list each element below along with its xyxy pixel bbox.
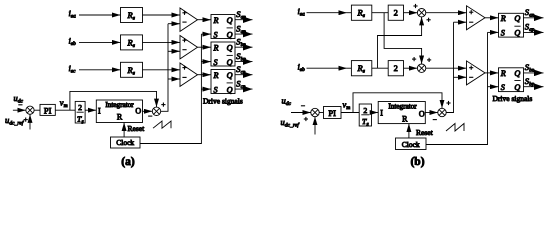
svg-text:R: R: [500, 69, 506, 78]
svg-text:Ts: Ts: [77, 115, 84, 126]
svg-text:R: R: [117, 113, 123, 122]
label 2 numerator (a): [78, 103, 82, 112]
wire pwm adder output to carrier rail (b): [446, 22, 453, 112]
svg-text:Q: Q: [227, 71, 233, 80]
svg-text:isb: isb: [69, 36, 77, 48]
svg-text:Q: Q: [514, 69, 520, 78]
label i_sa: [69, 8, 77, 20]
block clock (b): [396, 138, 427, 150]
wire carrier to comparator U2 minus input: [168, 50, 180, 52]
wire comparator output to flip-flop R channel b (b): [485, 72, 499, 74]
label minus at error junction (a): [18, 104, 22, 106]
svg-text:(a): (a): [121, 156, 135, 168]
fraction bar (b): [361, 114, 369, 116]
comparator channel a (b): [467, 6, 486, 30]
label Drive signals (a): [203, 96, 243, 105]
svg-text:Sbn: Sbn: [236, 37, 246, 49]
label Rs channel b (b): [357, 63, 365, 75]
wire PI to 2/Ts (b): [341, 112, 359, 114]
comparator U3 plus label: [182, 66, 186, 70]
wire output S_an: [235, 19, 253, 21]
svg-text:Drive signals: Drive signals: [203, 96, 243, 105]
comparator U2 plus label: [182, 38, 186, 42]
wire cross branch row2 up (b): [378, 17, 422, 68]
label minus at pwm adder (a): [148, 115, 152, 117]
label u_dc (a): [14, 93, 24, 105]
label minus at pwm adder (b): [433, 119, 437, 121]
wire i_sa to Rs block: [307, 12, 348, 14]
svg-text:Rs: Rs: [127, 65, 135, 77]
svg-text:PI: PI: [44, 105, 52, 115]
comparator U3 minus label: [182, 76, 186, 78]
label v_m (b): [343, 100, 351, 112]
wire Rs to gain-2 block channel b (b): [372, 67, 388, 69]
svg-text:Clock: Clock: [116, 138, 134, 147]
flip-flop pin Q channel a (b): [514, 14, 520, 23]
label Ts denominator (a): [77, 115, 84, 126]
svg-text:Integrator: Integrator: [105, 101, 134, 109]
label R reset pin (b): [402, 114, 408, 123]
wire error junction to PI (a): [34, 109, 40, 111]
wire gain-2 to adder channel a (b): [404, 12, 418, 14]
comparator U1 minus label: [182, 21, 186, 23]
svg-text:San: San: [525, 7, 535, 19]
wire output S_bn: [235, 46, 253, 48]
label i_sb: [298, 61, 306, 73]
svg-text:Clock: Clock: [402, 140, 420, 149]
svg-text:Scp: Scp: [236, 78, 246, 90]
flip-flop FF3 pin R: [213, 71, 219, 80]
flip-flop FF3 pin Qbar: [227, 83, 233, 94]
svg-text:R: R: [213, 16, 219, 25]
label Rs phase c: [127, 65, 135, 77]
label S_an: [236, 9, 246, 21]
label i_sc: [69, 63, 77, 75]
summing junction channel b (b): [417, 64, 425, 72]
SR flip-flop channel b (b): [499, 68, 524, 92]
wire carrier to comparator U3 minus input: [168, 78, 180, 80]
comparator channel b (b): [467, 61, 486, 85]
svg-text:Rs: Rs: [127, 10, 135, 22]
svg-text:Q: Q: [514, 83, 520, 92]
wire 2/Ts to integrator (a): [85, 109, 96, 111]
svg-text:R: R: [213, 43, 219, 52]
flip-flop FF1 pin Qbar: [227, 28, 233, 39]
svg-text:Q: Q: [514, 14, 520, 23]
label u_dc_ref (a): [5, 115, 25, 127]
block Rs phase a: [121, 8, 143, 23]
svg-text:R: R: [500, 14, 506, 23]
block Rs phase b: [121, 35, 143, 50]
block PI (b): [324, 107, 342, 119]
svg-text:S: S: [501, 83, 505, 92]
label u_dc_ref (b): [281, 117, 301, 129]
label S_bp: [236, 51, 246, 63]
label plus at error junction (b): [304, 117, 308, 121]
flip-flop FF3 pin Q: [227, 71, 233, 80]
flip-flop pin R channel a (b): [500, 14, 506, 23]
label u_dc (b): [282, 96, 292, 108]
svg-text:2: 2: [363, 106, 367, 115]
wire comparator U2 output to flip-flop R input: [198, 46, 212, 48]
svg-text:R: R: [213, 71, 219, 80]
comparator plus label channel a (b): [469, 10, 473, 14]
label I input pin (a): [98, 106, 101, 115]
block Rs phase c: [121, 62, 143, 77]
wire cross branch row1 down (b): [384, 13, 422, 64]
label Integrator (b): [388, 103, 417, 111]
wire output S_ap: [524, 31, 544, 33]
svg-text:O: O: [419, 110, 425, 119]
wire output S_ap: [235, 33, 253, 35]
label i_sa: [298, 6, 306, 18]
svg-text:isc: isc: [69, 63, 77, 75]
block integrator (b): [378, 102, 425, 124]
wire carrier to comparator U1 minus input: [168, 23, 180, 25]
svg-text:Reset: Reset: [128, 124, 146, 133]
wire carrier to comparator minus input channel b (b): [454, 76, 467, 78]
svg-text:PI: PI: [328, 108, 336, 118]
svg-text:udc_ref: udc_ref: [5, 115, 25, 127]
svg-text:I: I: [380, 109, 383, 118]
wire clock to flip-flop S channel a (b): [488, 31, 499, 33]
wire Rs to gain-2 block channel a (b): [372, 12, 388, 14]
wire i_sa to Rs block: [79, 14, 121, 16]
label O output pin (b): [419, 110, 425, 119]
comparator plus label channel b (b): [469, 66, 473, 70]
label O output pin (a): [135, 107, 141, 116]
label minus at error junction (b): [301, 105, 305, 107]
wire clock to flip-flop 2 S input: [201, 61, 211, 63]
label plus at pwm adder (a): [161, 103, 165, 107]
svg-text:Scn: Scn: [236, 64, 246, 76]
sawtooth carrier symbol (b): [446, 124, 464, 132]
label Rs channel a (b): [357, 8, 365, 20]
svg-text:Rs: Rs: [127, 37, 135, 49]
svg-text:Sbp: Sbp: [525, 76, 535, 88]
svg-text:Q: Q: [227, 58, 233, 67]
svg-text:(b): (b): [410, 156, 424, 168]
wire pwm adder output to carrier rail (a): [161, 24, 168, 112]
svg-text:udc: udc: [14, 93, 24, 105]
block 2/Ts (a): [75, 101, 85, 123]
comparator U1 plus label: [182, 11, 186, 15]
label S_ap: [525, 22, 535, 34]
svg-text:isa: isa: [69, 8, 77, 20]
label plus vertical adder2 (b): [427, 58, 431, 62]
wire u_dc_ref into error junction (b): [314, 117, 316, 135]
comparator U3: [180, 63, 198, 86]
svg-text:Sbn: Sbn: [525, 62, 535, 74]
wire integrator O to pwm adder (a): [143, 110, 153, 112]
wire output S_cp: [235, 88, 253, 90]
wire Rs to comparator 3 plus input: [143, 69, 181, 71]
label Drive signals (b): [493, 94, 533, 103]
flip-flop FF1 pin Q: [227, 16, 233, 25]
label i_sb: [69, 36, 77, 48]
label Rs phase a: [127, 10, 135, 22]
label Rs phase b: [127, 37, 135, 49]
wire output S_bp: [524, 86, 544, 88]
label S_bp: [525, 76, 535, 88]
flip-flop FF2 pin R: [213, 43, 219, 52]
pwm summing junction (a): [152, 107, 160, 115]
label R reset pin (a): [117, 113, 123, 122]
wire clock to flip-flop S rail (a): [140, 34, 201, 143]
svg-text:Reset: Reset: [416, 128, 434, 137]
comparator U1: [180, 8, 198, 31]
SR flip-flop FF3: [211, 70, 235, 94]
block gain 2 channel a (b): [388, 5, 403, 20]
svg-text:udc: udc: [282, 96, 292, 108]
flip-flop pin Q channel b (b): [514, 69, 520, 78]
block Rs channel a (b): [351, 5, 371, 20]
svg-text:vm: vm: [60, 97, 68, 109]
svg-text:vm: vm: [343, 100, 351, 112]
label Reset (b): [416, 128, 434, 137]
wire i_sb to Rs block: [79, 41, 121, 43]
wire clock to flip-flop S rail (b): [426, 32, 488, 144]
svg-text:S: S: [214, 58, 218, 67]
label S_bn: [525, 62, 535, 74]
flip-flop FF2 pin Q: [227, 43, 233, 52]
svg-text:Sap: Sap: [525, 22, 535, 34]
svg-text:2: 2: [394, 8, 398, 18]
label PI (a): [44, 105, 52, 115]
wire i_sc to Rs block: [79, 69, 121, 71]
svg-text:S: S: [501, 29, 505, 38]
block 2/Ts (b): [359, 104, 371, 126]
block clock (a): [111, 137, 141, 148]
wire v_m feedforward riser (b): [353, 93, 442, 113]
label 2 channel b (b): [394, 63, 398, 73]
flip-flop pin S channel a (b): [501, 29, 505, 38]
flip-flop FF3 pin S: [214, 85, 218, 94]
wire clock to flip-flop 3 S input: [201, 88, 211, 90]
flip-flop FF1 pin R: [213, 16, 219, 25]
svg-text:udc_ref: udc_ref: [281, 117, 301, 129]
label Integrator (a): [105, 101, 134, 109]
pwm summing junction (b): [438, 108, 446, 116]
caption (a): [121, 156, 135, 168]
label plus at error junction (a): [24, 118, 28, 122]
wire adder to comparator plus input channel b (b): [426, 67, 467, 69]
svg-text:Rs: Rs: [357, 8, 365, 20]
comparator U2 minus label: [182, 49, 186, 51]
wire clock to flip-flop 1 S input: [201, 33, 211, 35]
svg-text:Q: Q: [227, 43, 233, 52]
error summing junction (a): [26, 106, 34, 114]
wire comparator U1 output to flip-flop R input: [198, 19, 212, 21]
label S_ap: [236, 23, 246, 35]
svg-text:San: San: [236, 9, 246, 21]
wire gain-2 to adder channel b (b): [404, 67, 418, 69]
svg-text:Sap: Sap: [236, 23, 246, 35]
SR flip-flop channel a (b): [499, 13, 524, 37]
wire output S_cn: [235, 74, 253, 76]
label 2 channel a (b): [394, 8, 398, 18]
wire Rs to comparator 1 plus input: [143, 14, 181, 16]
svg-text:isa: isa: [298, 6, 306, 18]
sawtooth carrier symbol (a): [153, 121, 171, 128]
svg-text:2: 2: [78, 103, 82, 112]
SR flip-flop FF2: [211, 42, 235, 66]
svg-text:Integrator: Integrator: [388, 103, 417, 111]
wire adder to comparator plus input channel a (b): [426, 12, 467, 14]
svg-text:I: I: [98, 106, 101, 115]
svg-text:Q: Q: [227, 85, 233, 94]
svg-text:Q: Q: [514, 29, 520, 38]
flip-flop pin Qbar channel a (b): [514, 26, 520, 37]
svg-text:R: R: [402, 114, 408, 123]
label S_cp: [236, 78, 246, 90]
label Ts denominator (b): [362, 117, 369, 128]
svg-text:Sbp: Sbp: [236, 51, 246, 63]
wire v_m feedforward riser (a): [70, 91, 157, 110]
wire clock reset to integrator (b): [408, 124, 410, 138]
wire comparator U3 output to flip-flop R input: [198, 74, 212, 76]
wire u_dc_ref into error junction (a): [29, 114, 31, 129]
wire clock to flip-flop S channel b (b): [488, 86, 499, 88]
comparator minus label channel a (b): [469, 21, 473, 23]
wire error junction to PI (b): [319, 112, 323, 114]
svg-text:2: 2: [394, 63, 398, 73]
wire u_dc into error junction (b): [291, 112, 311, 114]
svg-text:S: S: [214, 85, 218, 94]
wire integrator O to pwm adder (b): [425, 112, 438, 114]
label plus at pwm adder (b): [446, 101, 450, 105]
wire output S_an: [524, 17, 544, 19]
label S_an: [525, 7, 535, 19]
block Rs channel b (b): [351, 61, 371, 76]
flip-flop FF2 pin Qbar: [227, 55, 233, 66]
comparator U2: [180, 36, 198, 59]
comparator minus label channel b (b): [469, 76, 473, 78]
label PI (b): [328, 108, 336, 118]
svg-text:Q: Q: [227, 30, 233, 39]
SR flip-flop FF1: [211, 15, 235, 39]
block integrator (a): [96, 100, 142, 123]
label plus vertical adder1 (b): [427, 18, 431, 22]
flip-flop FF2 pin S: [214, 58, 218, 67]
label Clock (b): [402, 140, 420, 149]
caption (b): [410, 156, 424, 168]
flip-flop pin Qbar channel b (b): [514, 81, 520, 92]
wire PI to 2/Ts (a): [55, 109, 75, 111]
wire comparator output to flip-flop R channel a (b): [485, 17, 499, 19]
flip-flop pin S channel b (b): [501, 83, 505, 92]
flip-flop pin R channel b (b): [500, 69, 506, 78]
block gain 2 channel b (b): [388, 61, 403, 76]
label plus horizontal adder1 (b): [413, 4, 417, 8]
wire i_sb to Rs block: [307, 67, 348, 69]
wire 2/Ts to integrator (b): [372, 112, 379, 114]
label v_m (a): [60, 97, 68, 109]
label S_bn: [236, 37, 246, 49]
label I input pin (b): [380, 109, 383, 118]
label S_cn: [236, 64, 246, 76]
wire carrier to comparator minus input channel a (b): [454, 21, 467, 23]
svg-text:Q: Q: [227, 16, 233, 25]
fraction bar (a): [77, 111, 84, 113]
svg-text:isb: isb: [298, 61, 306, 73]
wire Rs to comparator 2 plus input: [143, 41, 181, 43]
label Clock (a): [116, 138, 134, 147]
svg-text:S: S: [214, 30, 218, 39]
svg-text:Rs: Rs: [357, 63, 365, 75]
wire u_dc into error junction (a): [13, 109, 26, 111]
label plus horizontal adder2 (b): [412, 57, 416, 61]
summing junction channel a (b): [417, 9, 425, 17]
flip-flop FF1 pin S: [214, 30, 218, 39]
label Reset (a): [128, 124, 146, 133]
wire output S_bp: [235, 61, 253, 63]
error summing junction (b): [311, 108, 319, 116]
wire clock reset to integrator (a): [123, 123, 125, 138]
label 2 numerator (b): [363, 106, 367, 115]
svg-text:Drive signals: Drive signals: [493, 94, 533, 103]
block PI (a): [40, 104, 55, 115]
svg-text:O: O: [135, 107, 141, 116]
wire output S_bn: [524, 72, 544, 74]
